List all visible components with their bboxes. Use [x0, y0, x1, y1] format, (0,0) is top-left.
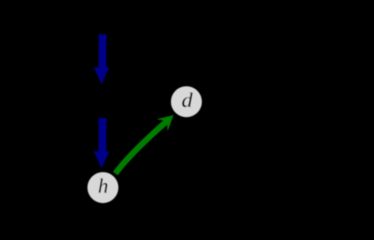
- blue arrow A1 (top, pointing down): [94, 34, 110, 84]
- green arrowhead at d: [157, 115, 174, 131]
- node d: [171, 86, 202, 117]
- blue arrow A2 (middle, pointing down): [94, 118, 110, 168]
- node h: [87, 172, 118, 203]
- green edge h to d (wire): [115, 121, 167, 174]
